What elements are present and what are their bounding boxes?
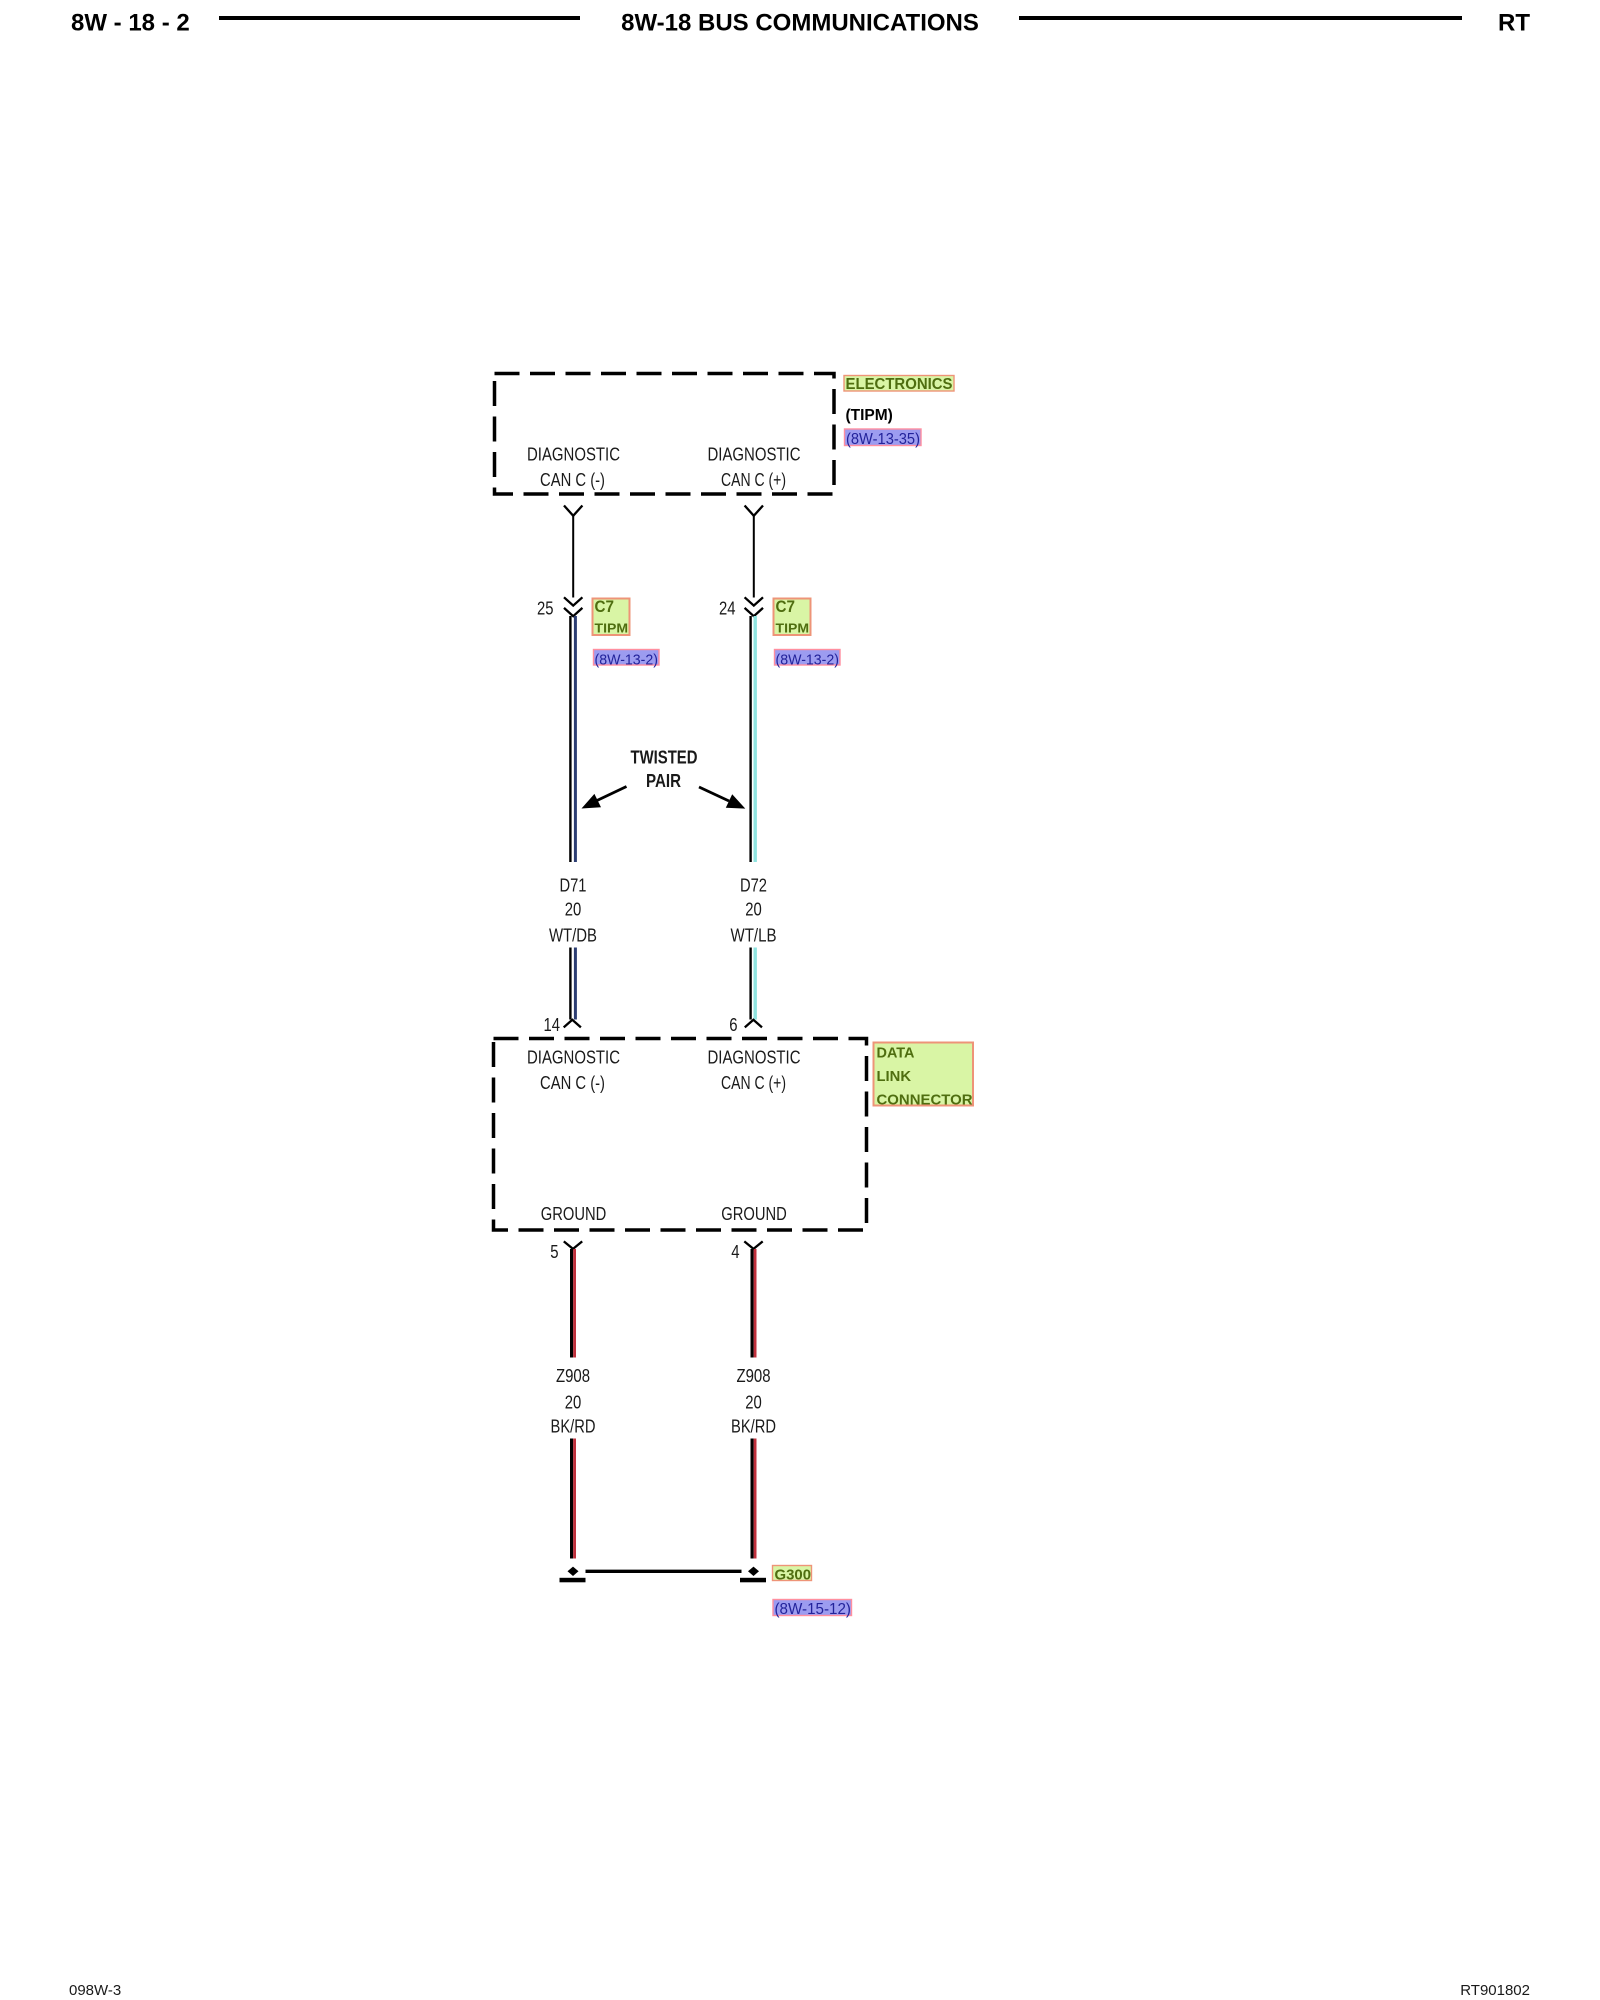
- svg-text:C7: C7: [595, 597, 615, 616]
- svg-text:LINK: LINK: [877, 1068, 912, 1085]
- svg-text:20: 20: [565, 1393, 582, 1413]
- svg-text:ELECTRONICS: ELECTRONICS: [846, 376, 953, 393]
- svg-text:BK/RD: BK/RD: [551, 1417, 596, 1437]
- svg-text:8W-18 BUS COMMUNICATIONS: 8W-18 BUS COMMUNICATIONS: [621, 10, 979, 37]
- svg-text:GROUND: GROUND: [541, 1204, 607, 1224]
- svg-text:Z908: Z908: [737, 1366, 771, 1386]
- svg-text:WT/LB: WT/LB: [731, 926, 777, 946]
- svg-text:6: 6: [729, 1015, 737, 1035]
- svg-text:CAN C (-): CAN C (-): [540, 470, 605, 490]
- svg-text:D71: D71: [560, 876, 587, 896]
- svg-text:(8W-15-12): (8W-15-12): [775, 1601, 852, 1618]
- svg-text:098W-3: 098W-3: [69, 1982, 121, 1999]
- svg-text:Z908: Z908: [556, 1366, 590, 1386]
- svg-text:TWISTED: TWISTED: [631, 748, 698, 768]
- svg-text:24: 24: [719, 598, 736, 618]
- svg-text:(8W-13-2): (8W-13-2): [776, 652, 840, 669]
- svg-text:GROUND: GROUND: [721, 1204, 787, 1224]
- svg-text:DIAGNOSTIC: DIAGNOSTIC: [708, 1047, 801, 1067]
- svg-text:14: 14: [544, 1015, 561, 1035]
- svg-text:4: 4: [731, 1242, 739, 1262]
- svg-text:25: 25: [537, 598, 554, 618]
- svg-text:C7: C7: [776, 597, 796, 616]
- svg-text:DIAGNOSTIC: DIAGNOSTIC: [527, 444, 620, 464]
- svg-text:(TIPM): (TIPM): [846, 407, 893, 424]
- svg-text:TIPM: TIPM: [595, 622, 629, 636]
- svg-text:TIPM: TIPM: [776, 622, 810, 636]
- svg-text:DIAGNOSTIC: DIAGNOSTIC: [708, 444, 801, 464]
- svg-text:(8W-13-2): (8W-13-2): [595, 652, 659, 669]
- svg-text:DATA: DATA: [877, 1045, 915, 1062]
- svg-text:(8W-13-35): (8W-13-35): [846, 431, 920, 448]
- svg-text:20: 20: [565, 900, 582, 920]
- svg-text:RT901802: RT901802: [1460, 1982, 1530, 1999]
- svg-text:D72: D72: [740, 876, 767, 896]
- svg-text:RT: RT: [1498, 10, 1530, 37]
- svg-text:20: 20: [745, 900, 762, 920]
- svg-text:5: 5: [550, 1242, 558, 1262]
- svg-text:8W - 18 - 2: 8W - 18 - 2: [71, 10, 190, 37]
- svg-text:CAN C (+): CAN C (+): [721, 1073, 786, 1093]
- svg-text:20: 20: [745, 1393, 762, 1413]
- svg-text:CAN C (-): CAN C (-): [540, 1073, 605, 1093]
- svg-text:CONNECTOR: CONNECTOR: [877, 1092, 973, 1109]
- svg-text:G300: G300: [775, 1567, 812, 1584]
- svg-text:CAN C (+): CAN C (+): [721, 470, 786, 490]
- svg-text:BK/RD: BK/RD: [731, 1417, 776, 1437]
- svg-text:WT/DB: WT/DB: [549, 926, 597, 946]
- svg-text:DIAGNOSTIC: DIAGNOSTIC: [527, 1047, 620, 1067]
- svg-text:PAIR: PAIR: [646, 771, 681, 791]
